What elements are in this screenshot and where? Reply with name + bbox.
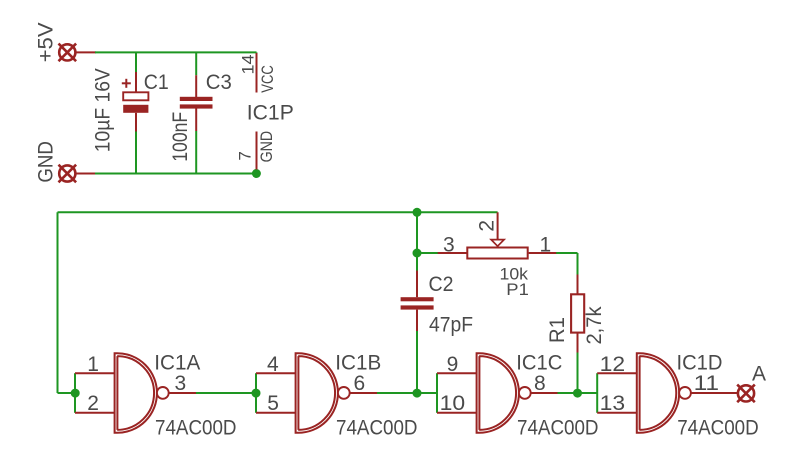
svg-text:12: 12	[600, 353, 626, 376]
nand gate IC1D body	[637, 353, 679, 433]
svg-text:10µF 16V: 10µF 16V	[91, 68, 114, 152]
svg-text:5: 5	[267, 392, 279, 415]
svg-text:IC1P: IC1P	[247, 101, 294, 124]
svg-text:GND: GND	[34, 141, 57, 183]
nand gate IC1C body	[477, 353, 519, 433]
svg-text:47pF: 47pF	[429, 314, 473, 337]
IC1A input pin 2	[75, 412, 115, 414]
IC1C output inverter bubble	[519, 387, 531, 399]
resistor R1 bottom pin	[577, 333, 579, 353]
wire IC1C output to junction	[558, 392, 578, 394]
svg-text:74AC00D: 74AC00D	[517, 417, 599, 440]
junction IC1A inputs / feedback	[71, 389, 80, 398]
svg-text:A: A	[752, 363, 766, 386]
wire +5V to C1	[135, 52, 137, 72]
IC1D input pin 12	[597, 372, 637, 374]
wire input connector of IC1A	[74, 373, 76, 413]
resistor R1 top pin	[577, 275, 579, 295]
svg-text:R1: R1	[546, 317, 569, 343]
svg-text:11: 11	[694, 372, 720, 395]
IC1P pin 7 (GND)	[256, 132, 258, 170]
wire P1 net down to C2	[416, 253, 418, 272]
IC1A output inverter bubble	[157, 387, 169, 399]
svg-text:4: 4	[267, 353, 279, 376]
wire down to R1	[577, 253, 579, 275]
junction GND rail / IC1P pin 7	[252, 169, 261, 178]
svg-text:2: 2	[475, 220, 498, 232]
wire C2 to IC1B output net	[416, 331, 418, 393]
wire junction to IC1C input	[417, 392, 437, 394]
capacitor C1 plus sign	[122, 79, 131, 88]
svg-text:+5V: +5V	[35, 22, 58, 62]
IC1B output inverter bubble	[338, 387, 350, 399]
svg-text:74AC00D: 74AC00D	[155, 417, 237, 440]
IC1P pin 14 (VCC)	[256, 53, 258, 93]
wire C3 to GND	[195, 131, 197, 174]
svg-text:IC1B: IC1B	[335, 352, 381, 375]
capacitor C1 top pin	[135, 72, 137, 92]
svg-text:VCC: VCC	[258, 65, 277, 93]
IC1A output pin 3	[169, 392, 197, 394]
wire +5V rail	[95, 51, 257, 53]
wire junction to IC1D input	[578, 392, 598, 394]
output pin A	[737, 385, 755, 403]
capacitor C2 bottom plate	[401, 305, 434, 309]
IC1D output inverter bubble	[679, 387, 691, 399]
P1 pin 3 stub	[438, 252, 467, 254]
svg-text:C2: C2	[429, 273, 454, 296]
junction IC1B output / C2	[413, 389, 422, 398]
wire IC1A output to IC1B input	[196, 392, 256, 394]
wire input connector of IC1C	[436, 373, 438, 413]
capacitor C2 top pin	[416, 271, 418, 298]
IC1B input pin 4	[256, 372, 296, 374]
wire R1 to IC1C output net	[577, 353, 579, 394]
wire feedback left rail	[57, 212, 59, 393]
svg-text:2: 2	[87, 392, 99, 415]
svg-text:6: 6	[354, 372, 366, 395]
svg-text:C3: C3	[206, 71, 232, 94]
capacitor C3 bottom plate	[180, 104, 213, 108]
junction IC1C output / R1	[573, 389, 582, 398]
capacitor C1 negative plate (filled)	[123, 105, 148, 113]
IC1D output pin 11	[691, 392, 738, 394]
IC1B output pin 6	[350, 392, 378, 394]
capacitor C1 bottom pin	[135, 113, 137, 132]
svg-text:74AC00D: 74AC00D	[677, 417, 759, 440]
P1 wiper arrow	[491, 240, 504, 247]
IC1C output pin 8	[531, 392, 558, 394]
wire top net to P1 wiper	[417, 211, 498, 213]
pin stub of +5V pin	[76, 51, 97, 53]
svg-text:1: 1	[87, 353, 99, 376]
wire C1 to GND	[135, 132, 137, 174]
junction top net / C2 branch	[413, 208, 422, 217]
svg-text:C1: C1	[144, 71, 169, 94]
wire +5V to C3	[195, 52, 197, 75]
capacitor C3 top plate	[180, 97, 213, 101]
pin stub of GND pin	[76, 173, 97, 175]
svg-text:IC1C: IC1C	[516, 352, 562, 375]
junction P1 pin3 / C2	[413, 249, 422, 258]
wire to P1 pin 3	[417, 252, 439, 254]
capacitor C3 top pin	[195, 75, 197, 97]
svg-text:3: 3	[443, 233, 455, 256]
svg-text:7: 7	[236, 151, 255, 160]
nand gate IC1A body	[115, 353, 157, 433]
supply pin GND	[59, 165, 77, 183]
supply pin +5V	[59, 44, 77, 62]
svg-text:8: 8	[534, 372, 546, 395]
svg-text:2,7k: 2,7k	[583, 306, 606, 344]
svg-text:P1: P1	[506, 280, 529, 299]
svg-text:9: 9	[447, 353, 459, 376]
svg-text:13: 13	[600, 392, 626, 415]
P1 pin 1 stub	[529, 252, 558, 254]
wire top net to junction	[58, 211, 418, 213]
IC1D input pin 13	[597, 412, 637, 414]
P1 wiper pin 2	[497, 212, 499, 241]
wire input connector of IC1D	[596, 373, 598, 413]
svg-text:100nF: 100nF	[169, 112, 192, 162]
svg-text:IC1A: IC1A	[154, 352, 200, 375]
junction IC1B inputs	[252, 389, 261, 398]
capacitor C1 positive plate (hollow)	[123, 92, 148, 100]
wire GND rail	[95, 173, 256, 175]
svg-text:GND: GND	[257, 131, 276, 163]
wire IC1B output to junction	[377, 392, 417, 394]
wire input connector of IC1B	[255, 373, 257, 413]
potentiometer P1 body	[467, 248, 527, 259]
svg-text:IC1D: IC1D	[677, 352, 723, 375]
capacitor C2 bottom pin	[416, 310, 418, 332]
IC1A input pin 1	[75, 372, 115, 374]
IC1B input pin 5	[256, 412, 296, 414]
svg-text:74AC00D: 74AC00D	[336, 417, 418, 440]
wire +5V corner down	[256, 52, 258, 54]
wire feedback to IC1A input	[58, 392, 77, 394]
svg-text:10: 10	[440, 392, 466, 415]
capacitor C2 top plate	[401, 297, 434, 301]
capacitor C3 bottom pin	[195, 108, 197, 131]
wire junction down to P1 pin 3 net	[416, 212, 418, 253]
svg-text:3: 3	[175, 372, 187, 395]
IC1C input pin 10	[437, 412, 477, 414]
IC1C input pin 9	[437, 372, 477, 374]
wire P1 pin1 to R1	[556, 252, 577, 254]
svg-text:1: 1	[540, 233, 552, 256]
resistor R1 body	[571, 294, 584, 332]
svg-text:14: 14	[238, 55, 257, 75]
nand gate IC1B body	[296, 353, 338, 433]
